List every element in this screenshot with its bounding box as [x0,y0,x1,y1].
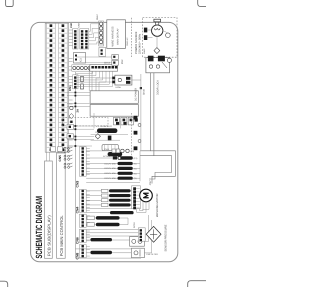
svg-text:DC12V 10W: DC12V 10W [105,167,116,170]
connector CN4 header [79,189,89,212]
wire long row [86,182,140,184]
PCB SUB(DISPLAY) section box [45,161,53,258]
svg-text:CN14: CN14 [104,62,111,65]
wire harness block W1 [107,20,126,49]
wire feeds to photocoupler PC1 [76,57,112,63]
svg-text:PCB SUB(DISPLAY): PCB SUB(DISPLAY) [47,215,52,257]
crystal X1 [95,134,100,139]
svg-text:(T5): (T5) [131,150,135,153]
buzzer BZ1 and diode D4 [69,106,74,123]
svg-text:CN10: CN10 [104,148,110,151]
svg-text:(V): (V) [134,163,137,166]
svg-text:IC3: IC3 [80,58,83,62]
heater H1 wash heater [86,216,128,220]
svg-text:DC12V 10W: DC12V 10W [105,177,116,180]
rotor winding W2 label bar [86,199,132,202]
fuse F1 thermal row [86,155,137,160]
wire relay RY1 leg A [140,73,150,151]
heater H2 dry heater [86,218,128,226]
transformer T1 secondary block [90,105,138,117]
switch S1 door switch contacts [64,147,72,168]
capacitor C7 [108,136,112,141]
svg-text:CN8: CN8 [76,253,80,260]
svg-text:CN12: CN12 [96,14,99,20]
svg-text:CN7: CN7 [149,180,152,185]
adjacent page corner mark top-right [198,0,206,7]
capacitor C11 C12 left of bus [67,124,73,138]
svg-text:EMI FILTER: EMI FILTER [147,253,159,256]
ic IC1 main microcontroller label bar [96,128,118,134]
switch S4 lid interlock contact [167,58,171,62]
filter NF1 noise filter [86,237,144,247]
sensor PS1 pressure sensor diamond [146,226,161,242]
tacho generator TG1 bar [86,189,132,192]
wire stubs from CN1 to main control circuits [69,30,73,146]
connector CN14 control header [90,62,118,72]
PCB MAIN outline vertical boundary [74,72,76,258]
svg-text:DC5V: DC5V [133,222,136,228]
capacitor C2 and resistor R4 near CN11 [81,77,84,90]
wire bus mcu area [91,113,128,140]
svg-text:SCHEMATIC DIAGRAM: SCHEMATIC DIAGRAM [34,196,44,259]
lamp LA1 drum lamp [152,19,163,36]
thermistor TH2 in lamp assembly [154,31,168,54]
svg-text:U10A: U10A [116,86,122,89]
connector CN9 dual-row header [80,29,89,49]
wire motor leads [137,201,149,212]
svg-text:IC1 S3F94C4EZZ: IC1 S3F94C4EZZ [96,125,113,128]
svg-text:(V): (V) [134,167,137,170]
dashed enclosure filter block [63,117,109,126]
svg-text:LAMP: LAMP [143,48,146,54]
svg-text:WASHING MOTOR: WASHING MOTOR [156,194,159,217]
motor winding W3 label bar [86,203,132,206]
connector CN8 header [79,245,89,258]
capacitor CX1 across line [86,248,144,257]
ic U5 display driver [74,53,86,64]
connector CN11 keypad header [73,75,78,89]
connector CN7 motor connector [132,186,141,210]
wire RY3 pins to bus [96,78,141,91]
valve V1 cold water [86,162,140,166]
photocoupler PC1 [112,55,124,66]
svg-text:CN3: CN3 [76,181,80,188]
resistor R7 network box [102,145,118,151]
valve V3 pre-wash [86,172,140,176]
connector CN13 small block [99,48,106,57]
connector CN5 header [79,214,89,227]
connector CN6 header [79,229,89,242]
svg-text:POWER SOURCE: POWER SOURCE [135,31,138,54]
wire rows to motor connector [86,207,131,209]
connector CN15 pressure sensor [138,228,145,241]
wire CN1 to PCB SUB box [47,152,50,161]
svg-text:SENSOR PRESSURE: SENSOR PRESSURE [164,224,167,251]
connector CN10 round pin header [72,65,95,71]
resistor network RN1 at strip end [51,147,63,152]
svg-text:CN13 AC: CN13 AC [126,37,129,46]
relay RY1 door lock [146,56,170,73]
connector CN12 wire-to-board round pins [99,21,104,46]
svg-text:WIRE HARNESS: WIRE HARNESS [112,26,115,46]
svg-text:CN16: CN16 [143,88,146,95]
svg-text:2A: 2A [75,109,79,113]
wire bottom bus lines [75,215,151,258]
adjacent page corner mark bottom-left [0,281,8,287]
wire bus CN14 to CN1 stair routing [76,71,113,86]
label micro right texts [126,37,146,54]
diode bridge D1 D2 D3 [114,117,134,125]
svg-text:(V): (V) [134,172,137,175]
svg-text:RY2: RY2 [121,59,124,64]
wire CN1 to PCB MAIN box [59,151,65,154]
valve V4 softener [86,177,140,181]
wire N1 riser [140,74,142,150]
svg-text:AC250V: AC250V [103,155,111,158]
switch S3 door lamp switch [166,33,171,38]
svg-text:DC12V 10W: DC12V 10W [105,162,116,165]
capacitor C8 C9 C10 filter column [134,116,141,150]
ic IC2 eeprom label bar [108,152,123,156]
relay RY3 main relay [112,75,132,89]
svg-text:DOOR LOCK: DOOR LOCK [156,80,159,95]
svg-text:CN9: CN9 [77,22,80,27]
svg-text:DC POWER: DC POWER [134,88,137,101]
capacitor C5 C6 electrolytic [116,118,138,124]
wire routing loop to motor connector [150,151,175,184]
transformer T1 primary block [90,91,138,104]
svg-text:DC12V 10W: DC12V 10W [105,172,116,175]
svg-text:(V): (V) [134,177,137,180]
svg-text:220-240V~ 50Hz: 220-240V~ 50Hz [138,33,141,54]
wire bus into power section [89,66,92,91]
terminal T3 lamp supply [144,28,153,40]
svg-text:CN5: CN5 [58,155,62,162]
wire relay RY1 leg B [140,73,154,156]
dashed boundary line dc section [130,113,132,158]
stator winding W1 label bar [86,194,132,197]
PCB MAIN CONTROL section box [57,153,66,258]
dashed boundary line mains section [130,18,132,57]
motor M1 washing motor [140,189,153,202]
svg-text:PCB MAIN CONTROL: PCB MAIN CONTROL [59,215,64,257]
schematic page border frame [31,22,178,261]
connector CN1 board-to-board pin strip (2x26) [45,23,68,152]
thermal protector TP1 bar [86,211,133,214]
wire valve bus vertical [139,151,141,181]
connector CN2 display header [73,29,78,49]
svg-text:(F1): (F1) [134,157,138,160]
dashed enclosure lamp assembly [143,18,177,58]
connector CN3 header [79,147,89,176]
junction node N1 [140,87,142,89]
wire bus pressure sensor feed [86,230,138,236]
adjacent page corner mark top-left [6,0,14,7]
wires CN9 to CN12 harness [89,24,99,44]
label POWER SOURCE 220-240V [135,31,142,54]
valve V2 hot water [86,167,140,171]
svg-text:CN4: CN4 [76,207,80,214]
thermostat TS1 row [86,148,134,153]
svg-text:CN6: CN6 [76,237,80,244]
svg-text:MAIN-DISPLAY: MAIN-DISPLAY [117,28,120,45]
adjacent page corner mark bottom-right [188,281,206,287]
junction nodes on main supply bus [67,92,94,147]
wire routing loop inner [149,156,172,179]
svg-text:CN2: CN2 [70,23,73,28]
